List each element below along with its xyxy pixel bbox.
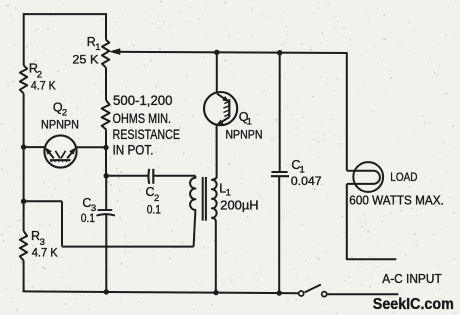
capacitor C3 bottom plate	[97, 214, 116, 216]
lamp LOAD (envelope circle)	[353, 162, 383, 192]
wire: top rail	[24, 13, 107, 15]
inductor L1 (right winding) with leads from Q1 down to bottom rail	[212, 125, 217, 293]
wire: A-C input line after switch	[327, 293, 398, 295]
node: Q2 / mid rail junction	[103, 145, 108, 150]
transistor Q2 (circle)	[44, 135, 76, 167]
wire: branch from left rail toward transformer (horizontal)	[24, 200, 62, 202]
svg-text:0.1: 0.1	[147, 203, 162, 217]
svg-text:600 WATTS MAX.: 600 WATTS MAX.	[349, 194, 444, 208]
svg-text:SeekIC.com: SeekIC.com	[373, 296, 454, 313]
wire: left rail lower segment	[23, 261, 25, 292]
svg-text:NPNPN: NPNPN	[41, 117, 79, 131]
transformer core	[203, 177, 206, 221]
transistor Q2 base bar	[50, 159, 71, 161]
node: C1 / bottom rail junction	[277, 290, 282, 295]
svg-text:1: 1	[95, 42, 100, 53]
potentiometer R1 wiper arrowhead	[110, 49, 120, 55]
wire: branch to transformer primary bottom	[62, 246, 194, 248]
svg-text:0.047: 0.047	[291, 174, 322, 188]
transistor Q2 right diode arm	[67, 150, 74, 158]
wire: mid rail C2 node to C3	[105, 176, 107, 211]
wire: Q2 right lead	[76, 146, 106, 148]
switch S1 left contact	[299, 291, 304, 296]
svg-text:200µH: 200µH	[220, 199, 258, 213]
svg-text:A-C INPUT: A-C INPUT	[382, 272, 442, 286]
switch S1 right contact	[322, 292, 327, 297]
wire: mid rail top segment	[105, 13, 107, 39]
node: L1 / bottom rail junction	[213, 290, 218, 295]
resistor R2	[20, 66, 27, 94]
svg-text:OHMS MIN.: OHMS MIN.	[113, 110, 172, 126]
wire: mid rail lower (C3 to bottom rail)	[105, 215, 107, 292]
transistor Q2 left arrowhead	[46, 148, 52, 154]
node: left rail / Q2 junction	[21, 144, 26, 149]
wire: C1 bottom lead	[278, 176, 280, 293]
wire: mid rail between R1 and min-resistance section	[105, 67, 107, 100]
wire: C2 right lead	[153, 175, 195, 177]
transistor Q1 base ticks	[223, 102, 229, 117]
wire: C2 left lead	[106, 175, 148, 177]
svg-text:25 K: 25 K	[72, 53, 98, 67]
transistor Q1 emitter arm	[218, 117, 230, 125]
node: left rail / branch junction	[21, 199, 26, 204]
svg-text:1: 1	[247, 116, 252, 127]
transistor Q1 collector arm	[217, 94, 228, 101]
transistor Q1 collector arrowhead	[223, 97, 229, 102]
transistor Q1 (circle)	[204, 92, 237, 125]
transistor Q1 emitter arrowhead	[217, 120, 223, 125]
wire: left rail upper segment	[23, 13, 25, 65]
svg-text:IN POT.: IN POT.	[113, 142, 154, 158]
svg-text:4.7 K: 4.7 K	[32, 245, 58, 259]
wire: mid rail between pot section and C2 node	[105, 130, 107, 176]
wire: branch vertical jog	[61, 201, 63, 246]
resistor R3	[20, 231, 27, 261]
capacitor C2 right plate	[152, 169, 154, 184]
transistor Q2 left diode arm	[47, 150, 54, 158]
wire: lamp bottom lead down and right to A-C terminal	[347, 184, 397, 259]
svg-text:NPNPN: NPNPN	[225, 128, 262, 142]
transistor Q2 inner V	[55, 151, 65, 159]
wire: C1 top lead	[279, 53, 281, 172]
svg-text:0.1: 0.1	[81, 211, 96, 225]
capacitor C3 top plate	[98, 209, 113, 211]
node: wiper line / C1 junction	[277, 50, 282, 55]
wire: bottom rail	[23, 291, 299, 293]
svg-text:LOAD: LOAD	[390, 170, 417, 184]
wire: Q1 collector lead from wiper line	[216, 52, 218, 92]
switch S1 blade	[305, 285, 321, 293]
node: mid rail / C2 junction	[104, 173, 109, 178]
node: mid rail / bottom rail junction	[104, 289, 109, 294]
resistor: 500-1200 ohm minimum-resistance section of pot	[102, 100, 110, 129]
svg-text:1: 1	[226, 187, 231, 198]
node: wiper line / Q1 junction	[214, 50, 219, 55]
transistor Q1 base bar	[228, 99, 230, 117]
capacitor C2 left plate	[147, 169, 150, 184]
capacitor C1 bottom plate	[271, 175, 289, 177]
transformer primary (left winding)	[190, 176, 195, 247]
svg-text:500-1,200: 500-1,200	[113, 92, 173, 108]
wire: Q2 left lead	[24, 146, 45, 148]
capacitor C1 top plate	[271, 171, 287, 173]
transistor Q2 base bar hatching	[51, 160, 67, 162]
transistor Q2 right arrowhead	[70, 148, 76, 154]
potentiometer R1 element	[102, 40, 109, 68]
svg-text:4.7 K: 4.7 K	[31, 79, 56, 93]
wire: wiper line to right with corner down to lamp	[119, 52, 347, 171]
svg-text:RESISTANCE: RESISTANCE	[113, 126, 181, 142]
lamp filament loop	[347, 171, 380, 184]
wire: left rail middle segment	[23, 94, 25, 231]
